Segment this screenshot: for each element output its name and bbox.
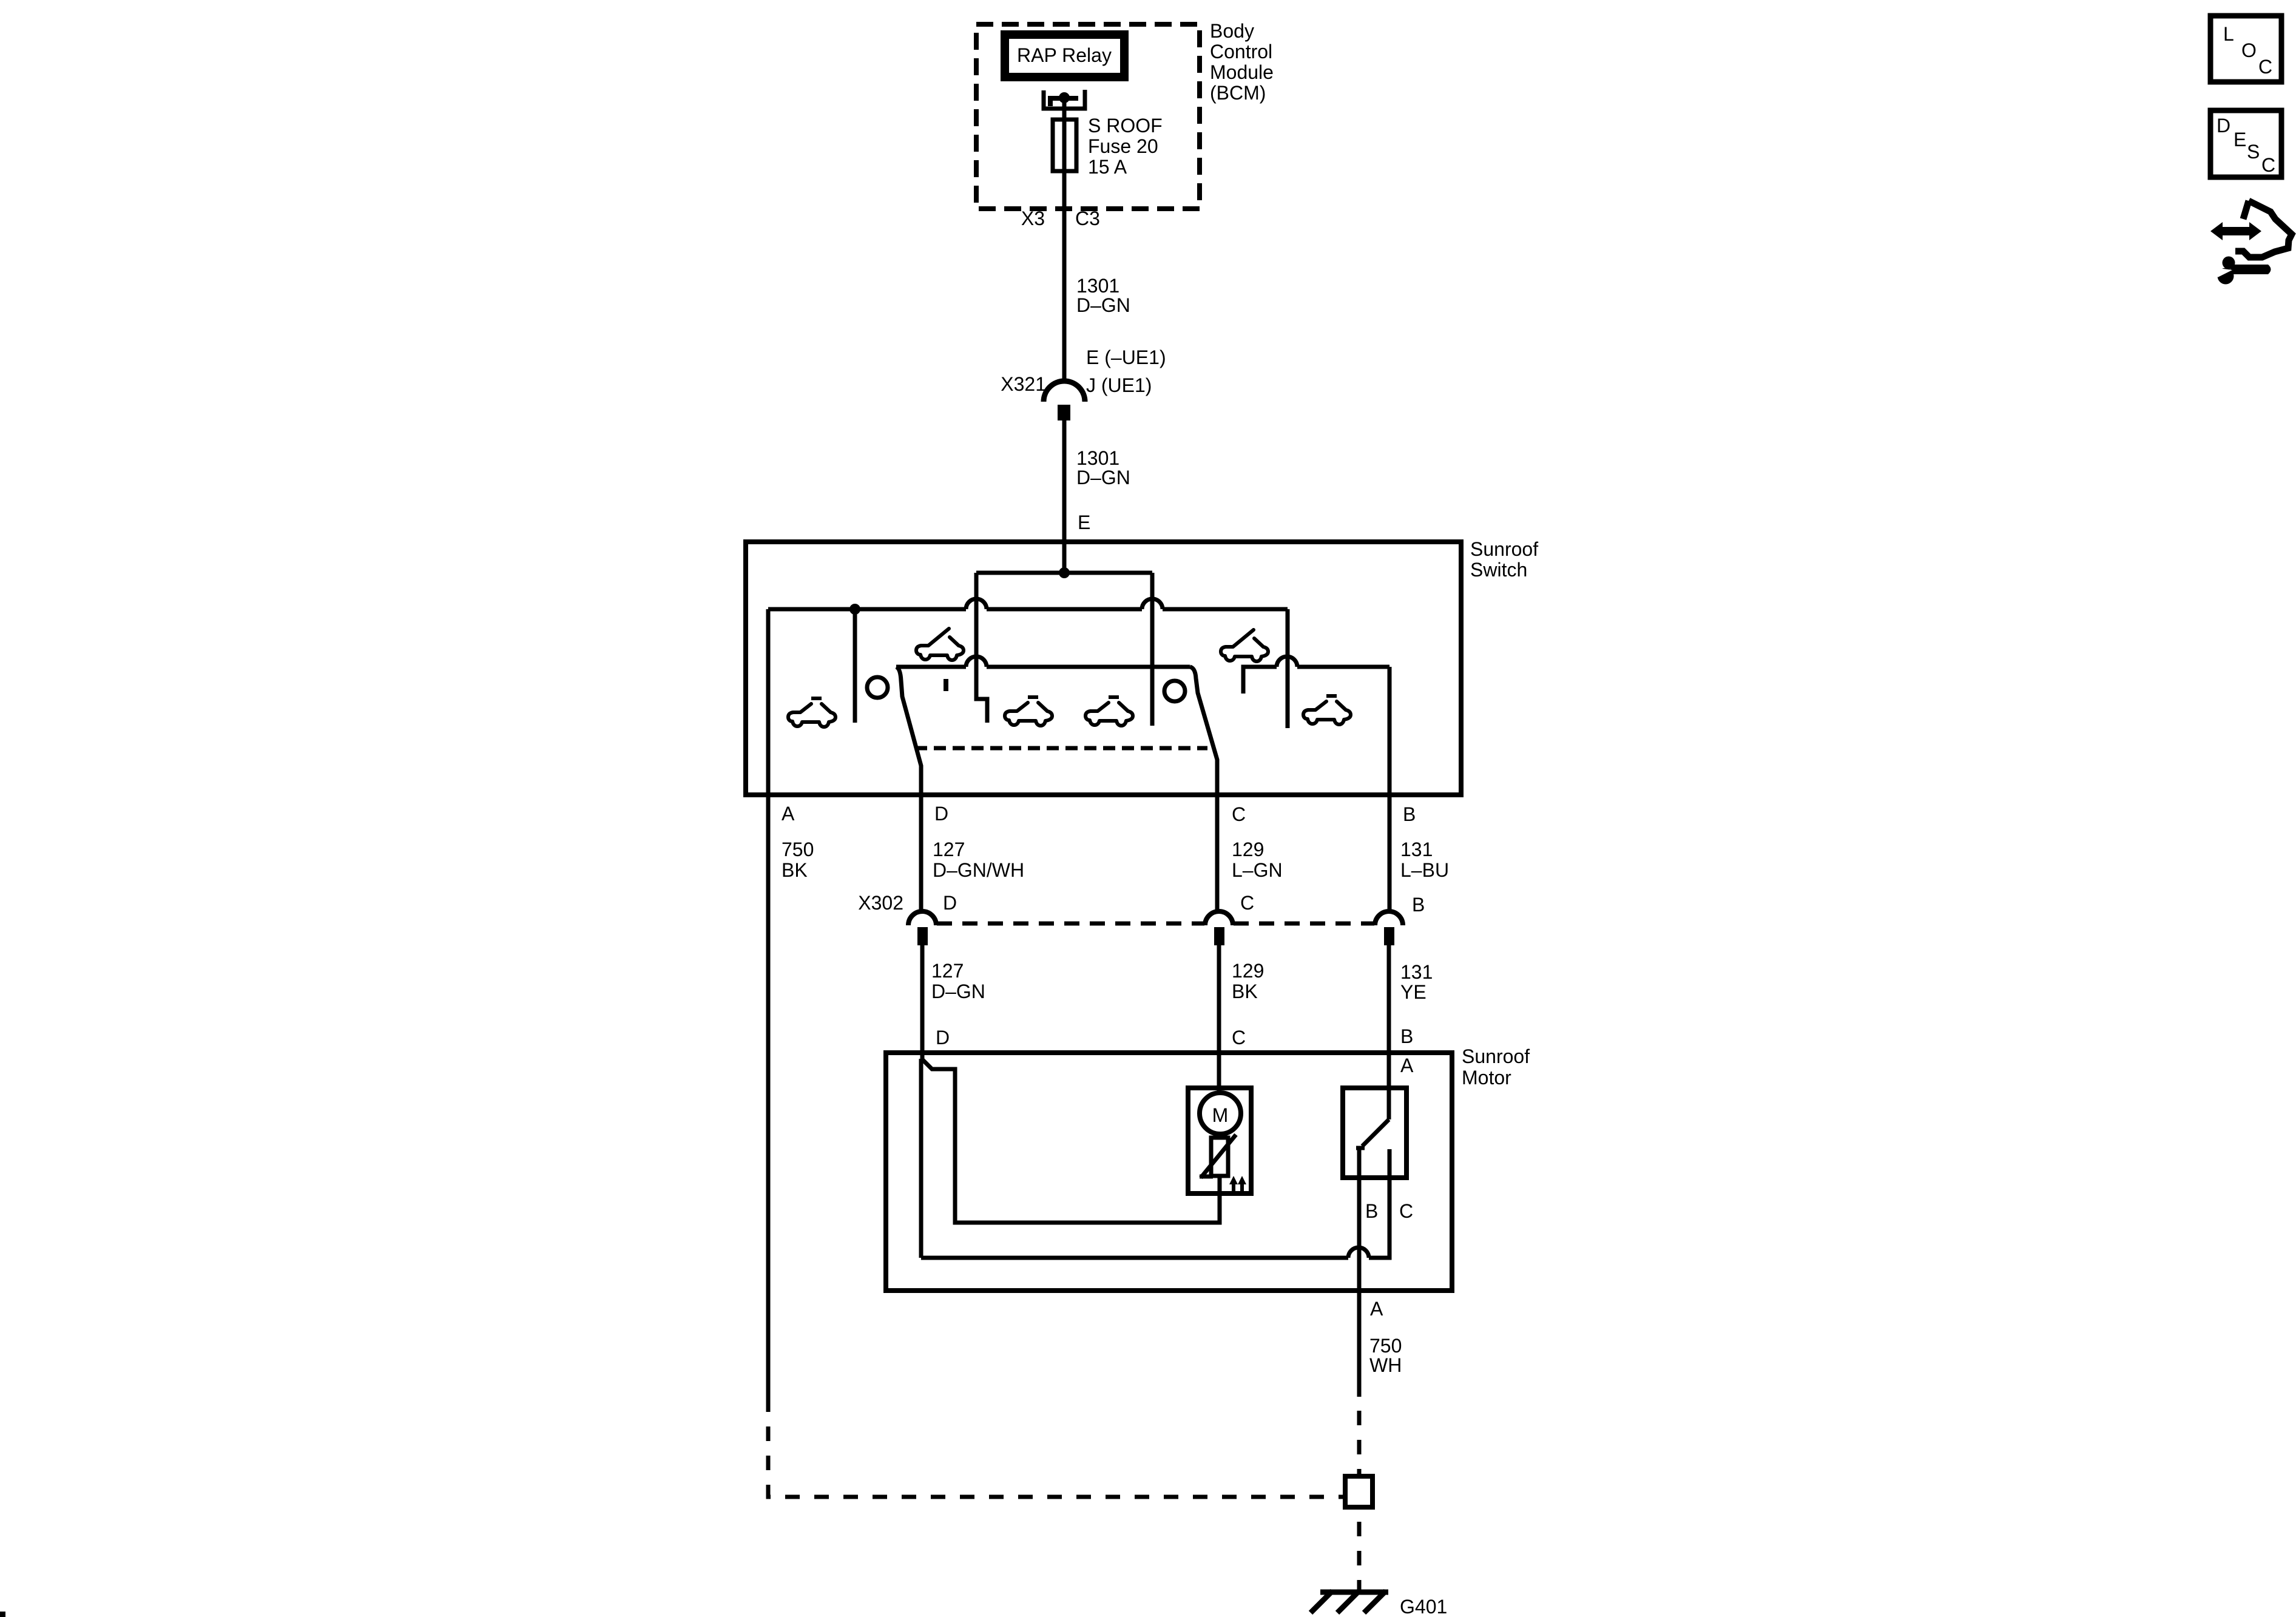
svg-text:129: 129 (1232, 839, 1264, 860)
svg-text:B: B (1400, 1025, 1413, 1047)
svg-text:129: 129 (1232, 960, 1264, 982)
svg-text:E: E (1078, 511, 1090, 533)
svg-text:D–GN: D–GN (931, 981, 985, 1002)
svg-text:YE: YE (1400, 981, 1427, 1003)
svg-text:131: 131 (1400, 839, 1433, 860)
svg-text:C: C (2258, 56, 2272, 78)
svg-text:C: C (1232, 1027, 1246, 1048)
svg-text:BK: BK (1232, 981, 1258, 1002)
svg-text:A: A (1370, 1298, 1383, 1320)
svg-text:1301: 1301 (1076, 275, 1119, 297)
svg-text:Module: Module (1210, 61, 1274, 83)
svg-text:D: D (936, 1027, 950, 1048)
svg-text:A: A (782, 803, 795, 825)
svg-text:X302: X302 (858, 892, 903, 914)
svg-text:B: B (1412, 894, 1425, 916)
svg-text:S: S (2247, 141, 2260, 163)
svg-text:L–BU: L–BU (1400, 859, 1449, 881)
svg-text:C: C (1240, 892, 1254, 914)
svg-text:B: B (1403, 803, 1416, 825)
svg-text:RAP Relay: RAP Relay (1017, 44, 1112, 66)
svg-text:C: C (1232, 803, 1246, 825)
svg-text:D: D (943, 892, 957, 914)
svg-text:E: E (2234, 129, 2246, 150)
svg-text:D–GN: D–GN (1076, 294, 1130, 316)
svg-text:D: D (934, 803, 948, 825)
svg-text:C3: C3 (1075, 208, 1100, 229)
svg-text:Fuse 20: Fuse 20 (1088, 135, 1158, 157)
svg-text:WH: WH (1369, 1354, 1402, 1376)
svg-text:(BCM): (BCM) (1210, 82, 1266, 104)
svg-text:D: D (2217, 115, 2230, 137)
svg-text:Body: Body (1210, 20, 1254, 42)
svg-text:BK: BK (782, 859, 808, 881)
svg-text:L–GN: L–GN (1232, 859, 1283, 881)
svg-text:D–GN/WH: D–GN/WH (933, 859, 1024, 881)
svg-text:J (UE1): J (UE1) (1086, 374, 1152, 396)
svg-text:15 A: 15 A (1088, 156, 1127, 178)
svg-text:Switch: Switch (1470, 559, 1527, 581)
svg-text:B: B (1365, 1200, 1378, 1222)
svg-text:D–GN: D–GN (1076, 467, 1130, 488)
svg-text:M: M (1212, 1104, 1229, 1126)
svg-text:Motor: Motor (1462, 1067, 1511, 1089)
svg-text:750: 750 (782, 839, 814, 860)
svg-text:750: 750 (1369, 1335, 1402, 1357)
svg-text:Sunroof: Sunroof (1470, 538, 1538, 560)
svg-text:A: A (1400, 1055, 1414, 1076)
svg-text:Sunroof: Sunroof (1462, 1045, 1530, 1067)
svg-text:Control: Control (1210, 41, 1272, 62)
svg-text:S ROOF: S ROOF (1088, 115, 1163, 137)
svg-text:C: C (2261, 154, 2275, 176)
svg-text:X321: X321 (1001, 373, 1046, 395)
svg-text:O: O (2241, 39, 2257, 61)
svg-text:X3: X3 (1021, 208, 1045, 229)
svg-text:L: L (2223, 23, 2234, 45)
svg-text:131: 131 (1400, 961, 1433, 983)
svg-text:127: 127 (933, 839, 965, 860)
svg-text:C: C (1399, 1200, 1413, 1222)
svg-text:127: 127 (931, 960, 964, 982)
svg-text:G401: G401 (1400, 1596, 1447, 1617)
svg-text:E (–UE1): E (–UE1) (1086, 346, 1166, 368)
svg-text:1301: 1301 (1076, 447, 1119, 469)
